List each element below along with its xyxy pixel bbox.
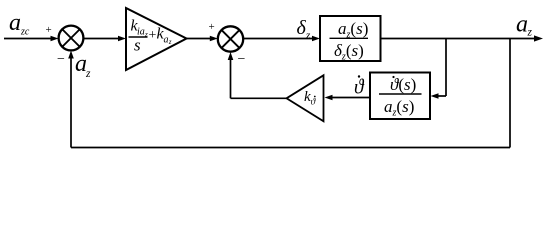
signal label a_zc <box>9 10 30 38</box>
svg-text:−: − <box>238 52 246 67</box>
wire gain K1 to summer S2 <box>187 36 218 42</box>
svg-text:δ: δ <box>297 17 307 39</box>
svg-text:az(s): az(s) <box>384 97 414 119</box>
svg-text:+: + <box>209 21 215 33</box>
signal label a_z (feedback into S1) <box>75 51 91 80</box>
value label k_ia_z / s + k_a_z inside K1 <box>129 18 172 55</box>
svg-text:z: z <box>305 30 311 42</box>
summing junction S2 <box>218 26 243 51</box>
svg-text:z: z <box>168 38 172 46</box>
wire block G2 to gain K2, signal thetadot <box>325 95 371 101</box>
svg-text:z: z <box>85 68 91 80</box>
svg-text:a: a <box>9 10 21 36</box>
svg-text:zc: zc <box>20 27 30 38</box>
wire input a_zc into summer S1 <box>4 36 59 42</box>
signal label a_z (output) <box>516 12 533 39</box>
wire outer feedback loop a_z to summer S1 <box>68 39 510 148</box>
svg-text:+: + <box>149 28 157 43</box>
svg-text:s: s <box>134 36 141 55</box>
summing junction S1 <box>59 26 84 51</box>
gain block K1 triangle <box>126 8 187 70</box>
transfer function block G2: thetadot(s)/a_z(s) <box>370 73 430 120</box>
gain block K2 triangle (k_thetadot) <box>287 75 324 121</box>
signal label delta_z <box>297 17 312 42</box>
svg-text:−: − <box>57 52 65 67</box>
wire block G1 to output a_z <box>381 35 544 41</box>
minus sign at summer S2 feedback input <box>238 52 246 67</box>
wire summer S2 to block G1, signal delta_z <box>244 36 320 42</box>
wire gain K2 to summer S2 (up) <box>228 52 287 98</box>
svg-text:a: a <box>164 35 169 46</box>
plus sign at summer S2 input <box>209 21 215 33</box>
transfer function block G1: a_z(s)/delta_z(s) <box>320 16 381 63</box>
svg-text:δz(s): δz(s) <box>334 41 364 63</box>
node: tap to block G2 input <box>431 39 447 99</box>
wire summer S1 to gain triangle K1 <box>84 36 127 42</box>
plus sign at summer S1 input <box>46 24 52 36</box>
svg-text:az(s): az(s) <box>338 19 368 41</box>
svg-text:+: + <box>46 24 52 36</box>
svg-text:z: z <box>527 27 533 39</box>
value label k_thetadot inside K2 <box>304 89 317 108</box>
svg-text:a: a <box>516 12 528 38</box>
signal label thetadot <box>354 75 365 99</box>
svg-text:ϑ: ϑ <box>354 75 365 99</box>
minus sign at summer S1 feedback input <box>57 52 65 67</box>
